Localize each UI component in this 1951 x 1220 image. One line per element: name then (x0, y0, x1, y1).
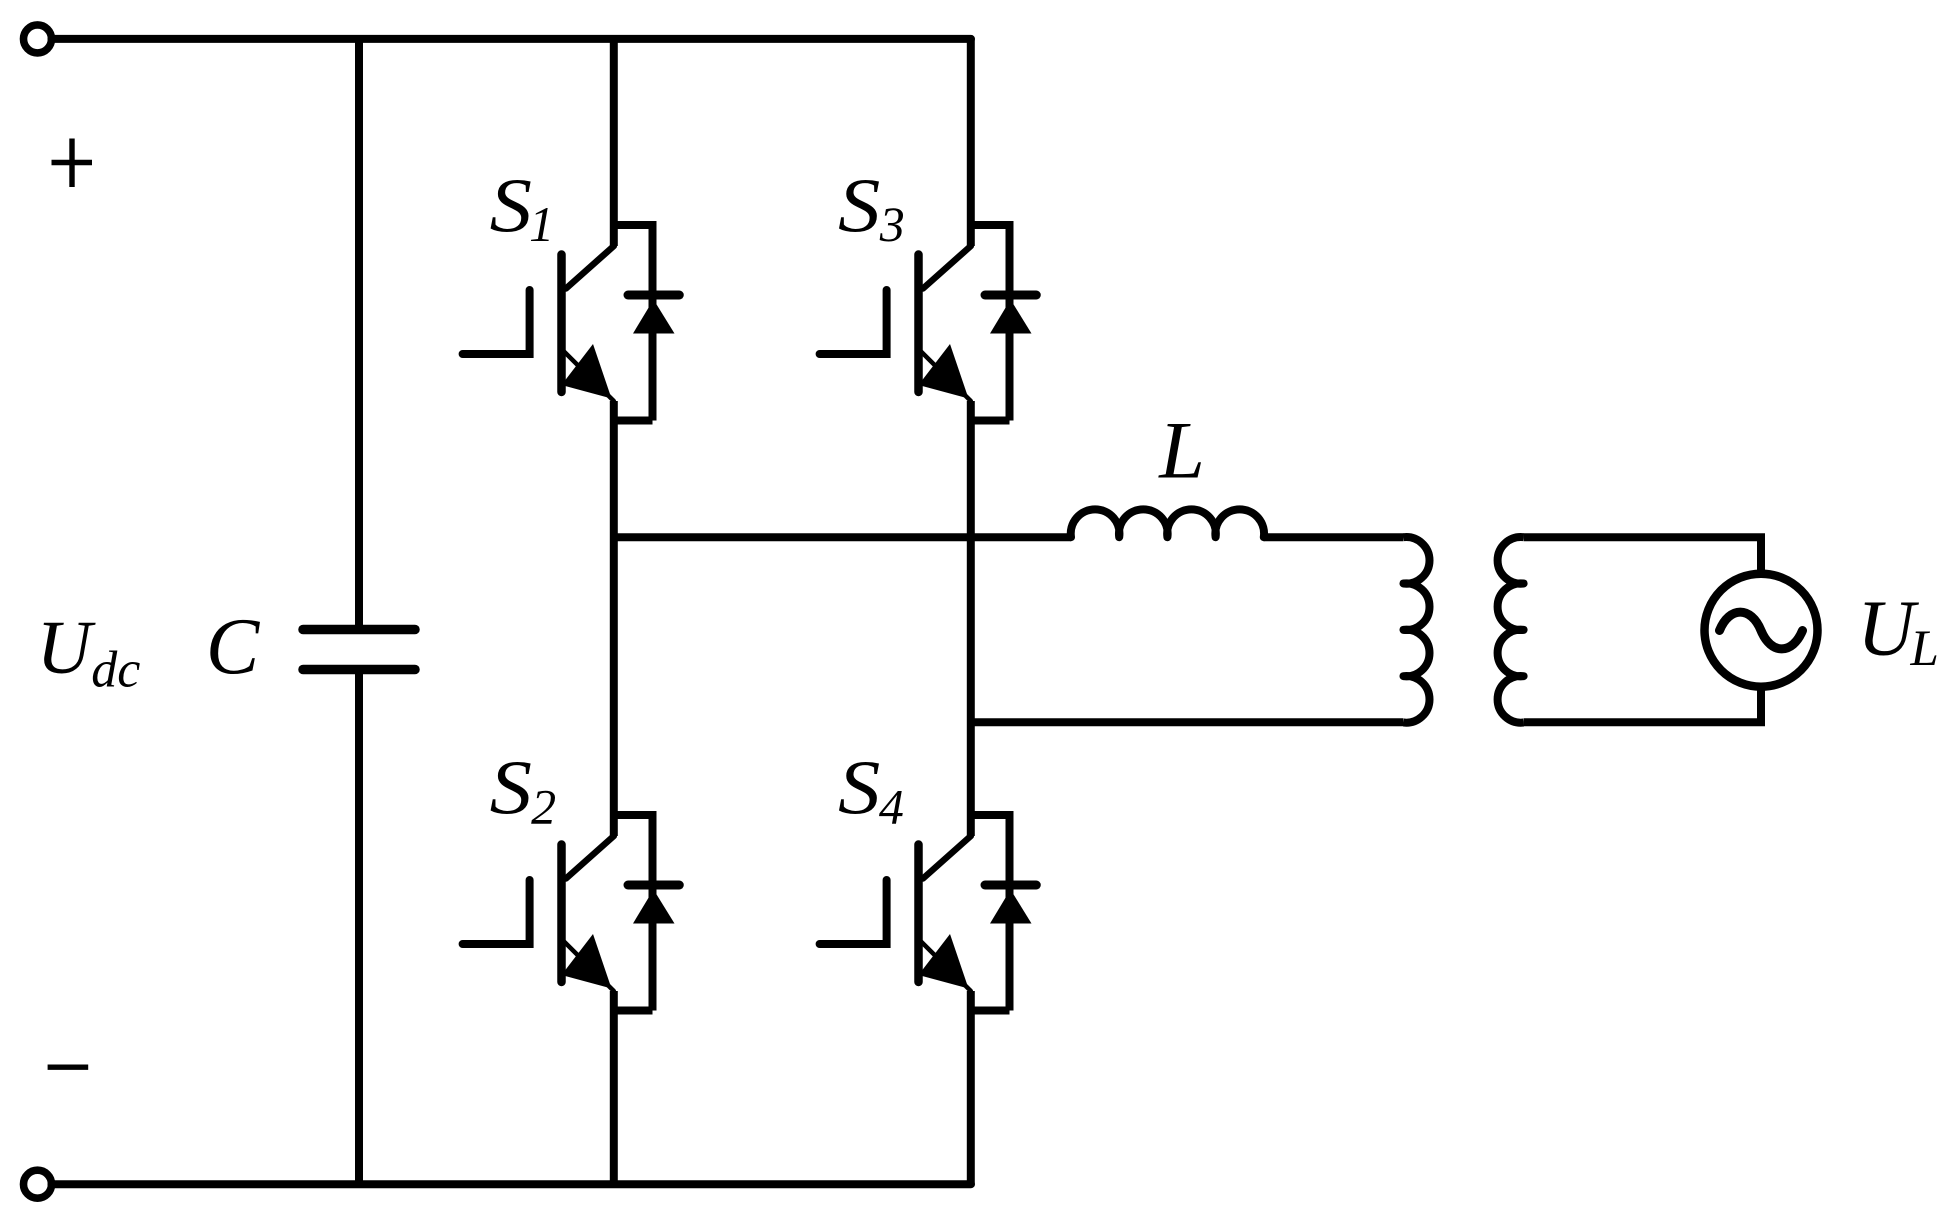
terminal + (top left open circle) (24, 25, 52, 53)
wire: bottom rail (52, 1180, 972, 1188)
wire: secondary bottom to source (1524, 688, 1761, 722)
wire: node A (bridge mid output, left leg to inductor) (614, 533, 1071, 541)
diode D4 cathode bar (985, 881, 1036, 890)
S4 emitter arrow (919, 934, 969, 989)
svg-text:4: 4 (879, 779, 904, 835)
diode D1 bottom wire (614, 417, 653, 425)
label S1 (490, 163, 532, 249)
wire: left leg top (rail to S1 collector) (610, 39, 618, 246)
svg-text:U: U (37, 606, 96, 690)
diode D1 vertical wire (649, 221, 657, 421)
svg-text:C: C (206, 604, 261, 692)
diode D1 triangle (633, 300, 675, 334)
S2 body bar (557, 845, 566, 983)
S3 emitter lead (921, 352, 971, 402)
plus sign (52, 139, 93, 188)
svg-text:S: S (490, 163, 532, 249)
svg-text:S: S (838, 163, 880, 249)
diode D1 cathode bar (628, 291, 679, 300)
wire: inductor to transformer primary (1264, 533, 1404, 541)
svg-text:S: S (838, 745, 880, 831)
inductor L (1071, 509, 1264, 537)
svg-text:L: L (1158, 405, 1205, 496)
diode D3 top wire (971, 221, 1010, 229)
wire: right leg bottom (S4 emitter to bottom rail) (967, 991, 975, 1184)
diode D2 top wire (614, 811, 653, 819)
S3 emitter arrow (919, 344, 969, 399)
terminal - (bottom left open circle) (24, 1170, 52, 1198)
label S3 (838, 163, 880, 249)
capacitor C: top wire (355, 39, 363, 625)
transistor S3 (IGBT) (820, 246, 971, 401)
svg-text:L: L (1910, 621, 1939, 677)
label S4 (838, 745, 880, 831)
diode D2 bottom wire (614, 1007, 653, 1015)
minus sign (48, 1064, 89, 1069)
capacitor C: bottom wire (355, 674, 363, 1184)
transistor S1 (IGBT) (463, 246, 614, 401)
diode D1 top wire (614, 221, 653, 229)
S3 body bar (914, 255, 923, 393)
diode D2 vertical wire (649, 811, 657, 1011)
AC source UL circle (1705, 574, 1818, 687)
S2 emitter lead (564, 942, 614, 992)
wire: left leg middle (S1 emitter to S2 collector, through node A) (610, 401, 618, 836)
S4 gate lead (820, 880, 887, 944)
diode D4 bottom wire (971, 1007, 1010, 1015)
capacitor C: top plate (303, 625, 415, 635)
S1 emitter arrow (562, 344, 612, 399)
svg-text:3: 3 (879, 196, 905, 252)
transformer primary winding (1404, 537, 1430, 723)
label S2 (490, 745, 532, 831)
transformer secondary winding (1498, 537, 1524, 723)
S1 collector lead (566, 246, 614, 289)
diode D2 cathode bar (628, 881, 679, 890)
S2 collector lead (566, 836, 614, 879)
capacitor C: bottom plate (303, 665, 415, 675)
svg-text:dc: dc (91, 642, 140, 699)
diode D3 bottom wire (971, 417, 1010, 425)
diode D3 triangle (990, 300, 1032, 334)
wire: left leg bottom (S2 emitter to bottom rail) (610, 991, 618, 1184)
diode D3 cathode bar (985, 291, 1036, 300)
S1 body bar (557, 255, 566, 393)
transistor S2 (IGBT) (463, 836, 614, 991)
S3 gate lead (820, 290, 887, 354)
svg-text:S: S (490, 745, 532, 831)
S4 body bar (914, 845, 923, 983)
S2 gate lead (463, 880, 530, 944)
S3 collector lead (923, 246, 971, 289)
svg-text:2: 2 (531, 779, 556, 835)
svg-text:1: 1 (529, 196, 554, 252)
wire: secondary top to source (1524, 537, 1761, 573)
diode D3 vertical wire (1006, 221, 1014, 421)
diode D4 top wire (971, 811, 1010, 819)
diode D4 vertical wire (1006, 811, 1014, 1011)
S1 gate lead (463, 290, 530, 354)
S1 emitter lead (564, 352, 614, 402)
diode D2 triangle (633, 890, 675, 924)
S4 emitter lead (921, 942, 971, 992)
wire: bridge lower output to transformer primary bottom (971, 718, 1404, 726)
AC source sine wave (1720, 612, 1803, 649)
S2 emitter arrow (562, 934, 612, 989)
transistor S4 (IGBT) (820, 836, 971, 991)
wire: right leg middle (S3 emitter to S4 collector) (967, 401, 975, 836)
wire: top rail (52, 35, 972, 43)
S4 collector lead (923, 836, 971, 879)
diode D4 triangle (990, 890, 1032, 924)
wire: right leg top (rail to S3 collector) (967, 39, 975, 246)
